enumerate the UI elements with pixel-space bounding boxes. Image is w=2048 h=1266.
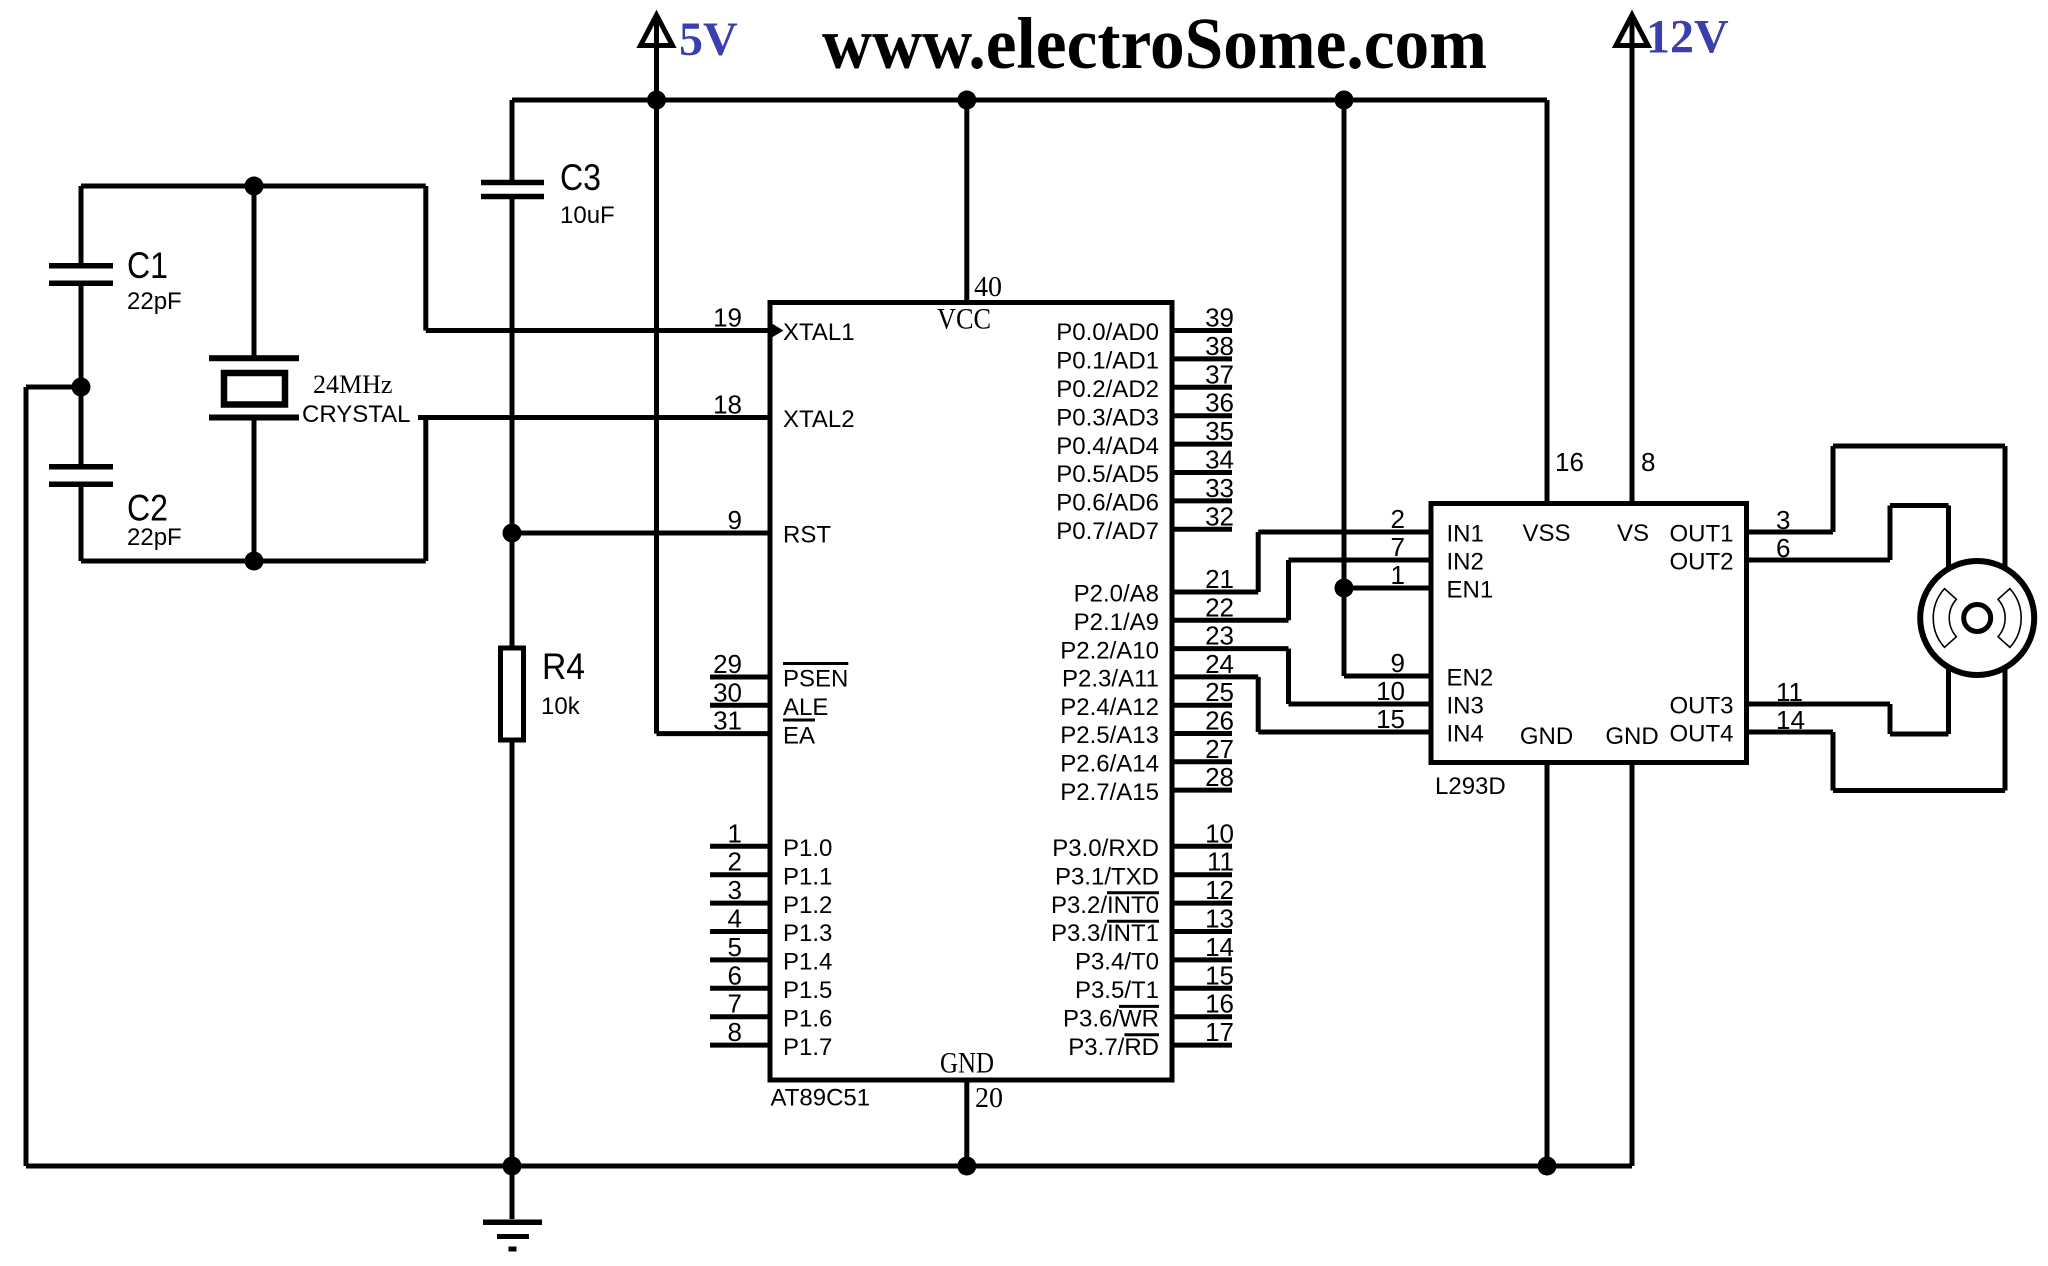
svg-text:P1.5: P1.5 — [783, 977, 832, 1004]
svg-text:EA: EA — [783, 722, 815, 749]
svg-text:OUT4: OUT4 — [1669, 721, 1733, 748]
svg-text:32: 32 — [1205, 501, 1234, 531]
svg-text:10: 10 — [1205, 818, 1234, 848]
svg-text:35: 35 — [1205, 416, 1234, 446]
svg-text:EN2: EN2 — [1447, 665, 1494, 692]
svg-text:CRYSTAL: CRYSTAL — [302, 401, 410, 428]
svg-text:P3.3/INT1: P3.3/INT1 — [1051, 920, 1159, 947]
svg-text:P3.7/RD: P3.7/RD — [1068, 1034, 1159, 1061]
svg-text:P3.5/T1: P3.5/T1 — [1075, 977, 1159, 1004]
svg-text:P3.0/RXD: P3.0/RXD — [1052, 835, 1159, 862]
svg-text:P2.5/A13: P2.5/A13 — [1060, 722, 1159, 749]
svg-text:2: 2 — [728, 847, 742, 877]
svg-text:P2.3/A11: P2.3/A11 — [1062, 666, 1159, 693]
svg-text:39: 39 — [1205, 303, 1234, 333]
svg-text:P1.1: P1.1 — [783, 863, 832, 890]
svg-text:40: 40 — [974, 272, 1002, 303]
svg-text:P0.0/AD0: P0.0/AD0 — [1056, 319, 1159, 346]
svg-text:P0.3/AD3: P0.3/AD3 — [1056, 404, 1159, 431]
svg-text:P0.5/AD5: P0.5/AD5 — [1056, 461, 1159, 488]
svg-text:GND: GND — [940, 1047, 994, 1080]
svg-text:P3.4/T0: P3.4/T0 — [1075, 949, 1159, 976]
svg-text:IN2: IN2 — [1447, 549, 1484, 576]
svg-text:15: 15 — [1376, 704, 1405, 734]
svg-text:C1: C1 — [127, 245, 168, 286]
svg-text:P0.1/AD1: P0.1/AD1 — [1056, 348, 1159, 375]
svg-text:IN4: IN4 — [1447, 721, 1484, 748]
svg-text:21: 21 — [1205, 564, 1234, 594]
svg-text:AT89C51: AT89C51 — [771, 1085, 871, 1112]
svg-text:31: 31 — [713, 706, 742, 736]
svg-text:5V: 5V — [679, 13, 738, 66]
svg-text:IN3: IN3 — [1447, 693, 1484, 720]
svg-text:28: 28 — [1205, 762, 1234, 792]
svg-text:33: 33 — [1205, 473, 1234, 503]
svg-text:10uF: 10uF — [560, 202, 615, 229]
svg-text:30: 30 — [713, 677, 742, 707]
svg-text:17: 17 — [1205, 1017, 1234, 1047]
svg-text:22pF: 22pF — [127, 288, 182, 315]
svg-text:PSEN: PSEN — [783, 666, 848, 693]
svg-text:26: 26 — [1205, 706, 1234, 736]
svg-text:4: 4 — [728, 904, 742, 934]
svg-text:37: 37 — [1205, 359, 1234, 389]
svg-text:C3: C3 — [560, 157, 601, 198]
svg-text:2: 2 — [1391, 504, 1405, 534]
svg-text:XTAL2: XTAL2 — [783, 406, 855, 433]
svg-text:11: 11 — [1207, 847, 1234, 877]
svg-text:6: 6 — [728, 960, 742, 990]
svg-text:12V: 12V — [1646, 11, 1729, 64]
svg-text:8: 8 — [728, 1017, 742, 1047]
svg-text:38: 38 — [1205, 331, 1234, 361]
svg-text:11: 11 — [1776, 677, 1803, 707]
svg-text:P2.0/A8: P2.0/A8 — [1074, 581, 1159, 608]
svg-text:16: 16 — [1205, 989, 1234, 1019]
svg-text:5: 5 — [728, 932, 742, 962]
svg-text:P1.3: P1.3 — [783, 920, 832, 947]
svg-text:EN1: EN1 — [1447, 577, 1494, 604]
svg-text:P0.4/AD4: P0.4/AD4 — [1056, 433, 1159, 460]
svg-text:VCC: VCC — [937, 303, 991, 336]
svg-text:23: 23 — [1205, 621, 1234, 651]
svg-text:P0.7/AD7: P0.7/AD7 — [1056, 518, 1159, 545]
svg-text:L293D: L293D — [1435, 773, 1506, 800]
svg-text:IN1: IN1 — [1447, 521, 1484, 548]
svg-text:14: 14 — [1776, 705, 1805, 735]
svg-text:GND: GND — [1520, 723, 1573, 750]
svg-text:1: 1 — [728, 818, 742, 848]
svg-text:7: 7 — [1391, 532, 1405, 562]
svg-text:OUT2: OUT2 — [1669, 549, 1733, 576]
svg-text:P1.4: P1.4 — [783, 949, 832, 976]
svg-text:10k: 10k — [541, 693, 581, 720]
svg-text:29: 29 — [713, 649, 742, 679]
svg-text:25: 25 — [1205, 677, 1234, 707]
svg-text:6: 6 — [1776, 533, 1790, 563]
svg-text:14: 14 — [1205, 932, 1234, 962]
svg-text:24: 24 — [1205, 649, 1234, 679]
svg-text:P2.2/A10: P2.2/A10 — [1060, 637, 1159, 664]
svg-text:P0.2/AD2: P0.2/AD2 — [1056, 376, 1159, 403]
svg-text:20: 20 — [975, 1083, 1003, 1114]
svg-text:P2.4/A12: P2.4/A12 — [1060, 694, 1159, 721]
svg-text:9: 9 — [728, 505, 742, 535]
svg-text:OUT3: OUT3 — [1669, 693, 1733, 720]
svg-text:GND: GND — [1605, 723, 1658, 750]
svg-text:18: 18 — [713, 390, 742, 420]
svg-text:www.electroSome.com: www.electroSome.com — [822, 3, 1487, 84]
svg-text:16: 16 — [1555, 447, 1584, 477]
svg-text:OUT1: OUT1 — [1669, 521, 1733, 548]
svg-text:3: 3 — [728, 875, 742, 905]
svg-text:13: 13 — [1205, 904, 1234, 934]
svg-text:P2.1/A9: P2.1/A9 — [1074, 609, 1159, 636]
svg-text:P0.6/AD6: P0.6/AD6 — [1056, 490, 1159, 517]
svg-text:7: 7 — [728, 989, 742, 1019]
svg-text:9: 9 — [1391, 648, 1405, 678]
svg-text:8: 8 — [1641, 447, 1655, 477]
svg-text:27: 27 — [1205, 734, 1234, 764]
svg-text:P3.6/WR: P3.6/WR — [1063, 1005, 1159, 1032]
svg-text:19: 19 — [713, 303, 742, 333]
svg-text:12: 12 — [1205, 875, 1234, 905]
svg-text:3: 3 — [1776, 505, 1790, 535]
svg-text:ALE: ALE — [783, 694, 828, 721]
svg-text:P3.2/INT0: P3.2/INT0 — [1051, 892, 1159, 919]
svg-text:P3.1/TXD: P3.1/TXD — [1055, 863, 1159, 890]
svg-text:XTAL1: XTAL1 — [783, 319, 855, 346]
svg-text:P1.0: P1.0 — [783, 835, 832, 862]
svg-text:36: 36 — [1205, 388, 1234, 418]
svg-text:1: 1 — [1391, 560, 1405, 590]
svg-text:P1.7: P1.7 — [783, 1034, 832, 1061]
svg-text:VSS: VSS — [1522, 520, 1570, 547]
svg-text:R4: R4 — [542, 646, 585, 687]
svg-text:15: 15 — [1205, 960, 1234, 990]
svg-text:P1.6: P1.6 — [783, 1005, 832, 1032]
svg-text:P1.2: P1.2 — [783, 892, 832, 919]
svg-text:22: 22 — [1205, 592, 1234, 622]
svg-text:VS: VS — [1617, 520, 1649, 547]
svg-text:C2: C2 — [127, 488, 168, 529]
svg-text:22pF: 22pF — [127, 524, 182, 551]
svg-text:P2.6/A14: P2.6/A14 — [1060, 751, 1159, 778]
svg-text:P2.7/A15: P2.7/A15 — [1060, 779, 1159, 806]
svg-text:RST: RST — [783, 522, 831, 549]
svg-text:34: 34 — [1205, 445, 1234, 475]
svg-text:10: 10 — [1376, 676, 1405, 706]
svg-text:24MHz: 24MHz — [313, 370, 392, 399]
